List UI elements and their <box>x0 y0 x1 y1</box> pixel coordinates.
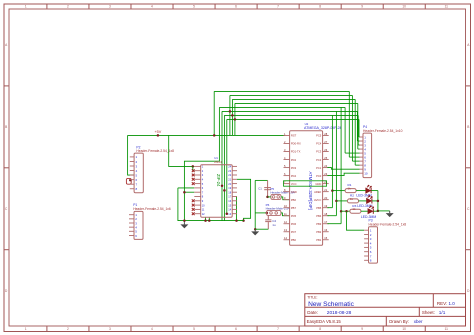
svg-text:Header-Female-2.54_1x8: Header-Female-2.54_1x8 <box>136 149 174 153</box>
svg-text:PB0: PB0 <box>291 238 297 242</box>
svg-text:PD2: PD2 <box>291 158 297 162</box>
svg-text:1: 1 <box>25 5 27 9</box>
svg-text:PB7: PB7 <box>291 206 297 210</box>
svg-text:PB1: PB1 <box>316 238 322 242</box>
svg-text:2018-08-28: 2018-08-28 <box>327 310 352 316</box>
svg-text:RST: RST <box>291 134 297 138</box>
svg-text:EasyEDA V5.8.15: EasyEDA V5.8.15 <box>307 319 342 324</box>
svg-text:1u: 1u <box>272 223 276 227</box>
svg-text:1: 1 <box>25 327 27 331</box>
svg-text:ZIF24: ZIF24 <box>214 160 222 164</box>
svg-text:Drawn By:: Drawn By: <box>389 319 409 324</box>
svg-text:AVCC: AVCC <box>314 198 321 202</box>
svg-text:PD7: PD7 <box>291 230 297 234</box>
svg-text:New Schematic: New Schematic <box>308 301 355 308</box>
svg-text:Header-Female-2.54_1x10: Header-Female-2.54_1x10 <box>363 129 403 133</box>
svg-text:AREF: AREF <box>314 190 322 194</box>
svg-text:GND: GND <box>291 190 297 194</box>
svg-text:9: 9 <box>361 327 363 331</box>
svg-text:10: 10 <box>402 327 406 331</box>
svg-text:GND: GND <box>315 182 321 186</box>
svg-text:Sheet:: Sheet: <box>422 310 435 315</box>
svg-text:7: 7 <box>277 5 279 9</box>
svg-text:ZIF-24: ZIF-24 <box>216 174 221 187</box>
svg-text:4: 4 <box>151 327 153 331</box>
svg-text:Header-Female-2.54_1x8: Header-Female-2.54_1x8 <box>369 222 407 226</box>
svg-text:PD6: PD6 <box>291 222 297 226</box>
svg-text:9: 9 <box>361 5 363 9</box>
svg-text:xber: xber <box>414 319 423 324</box>
svg-text:B: B <box>5 125 7 129</box>
svg-text:PC5: PC5 <box>316 134 322 138</box>
svg-text:11: 11 <box>445 327 449 331</box>
svg-text:10: 10 <box>402 5 406 9</box>
svg-text:PD1-TX: PD1-TX <box>291 150 301 154</box>
svg-text:PD4: PD4 <box>291 174 297 178</box>
svg-text:REV:: REV: <box>437 301 447 306</box>
svg-text:2: 2 <box>67 5 69 9</box>
svg-text:3: 3 <box>109 5 111 9</box>
svg-text:5: 5 <box>193 5 195 9</box>
svg-text:PB4: PB4 <box>316 214 322 218</box>
svg-text:PC2: PC2 <box>316 158 322 162</box>
svg-text:VCC: VCC <box>291 182 297 186</box>
svg-text:Date:: Date: <box>307 310 318 315</box>
svg-text:PB5: PB5 <box>316 206 322 210</box>
svg-text:PD0-RX: PD0-RX <box>291 142 301 146</box>
svg-text:1k: 1k <box>352 207 356 211</box>
svg-text:8: 8 <box>319 327 321 331</box>
svg-text:Header-Female-2.54_1x6: Header-Female-2.54_1x6 <box>133 207 171 211</box>
svg-text:4: 4 <box>151 5 153 9</box>
svg-text:PB6: PB6 <box>291 198 297 202</box>
svg-text:5: 5 <box>193 327 195 331</box>
svg-text:1.0: 1.0 <box>449 301 456 306</box>
svg-text:PB3: PB3 <box>316 222 322 226</box>
svg-text:B: B <box>467 125 469 129</box>
svg-text:PB2: PB2 <box>316 230 322 234</box>
svg-text:1/1: 1/1 <box>439 310 446 315</box>
svg-text:10: 10 <box>364 171 368 175</box>
svg-text:8: 8 <box>319 5 321 9</box>
svg-text:PD5: PD5 <box>291 214 297 218</box>
svg-text:TITLE:: TITLE: <box>307 296 317 300</box>
svg-text:PC0: PC0 <box>316 174 322 178</box>
svg-text:2: 2 <box>67 327 69 331</box>
svg-text:3: 3 <box>109 327 111 331</box>
svg-text:ATMEGA 328P[DIP]: ATMEGA 328P[DIP] <box>308 172 313 210</box>
svg-text:PC3: PC3 <box>316 150 322 154</box>
svg-text:11: 11 <box>445 5 449 9</box>
svg-text:PD3: PD3 <box>291 166 297 170</box>
svg-text:PC1: PC1 <box>316 166 322 170</box>
svg-text:6: 6 <box>235 327 237 331</box>
svg-text:C1: C1 <box>258 186 262 190</box>
svg-text:7: 7 <box>277 327 279 331</box>
svg-text:+5V: +5V <box>154 130 161 134</box>
svg-text:6: 6 <box>235 5 237 9</box>
svg-text:PC4: PC4 <box>316 142 322 146</box>
